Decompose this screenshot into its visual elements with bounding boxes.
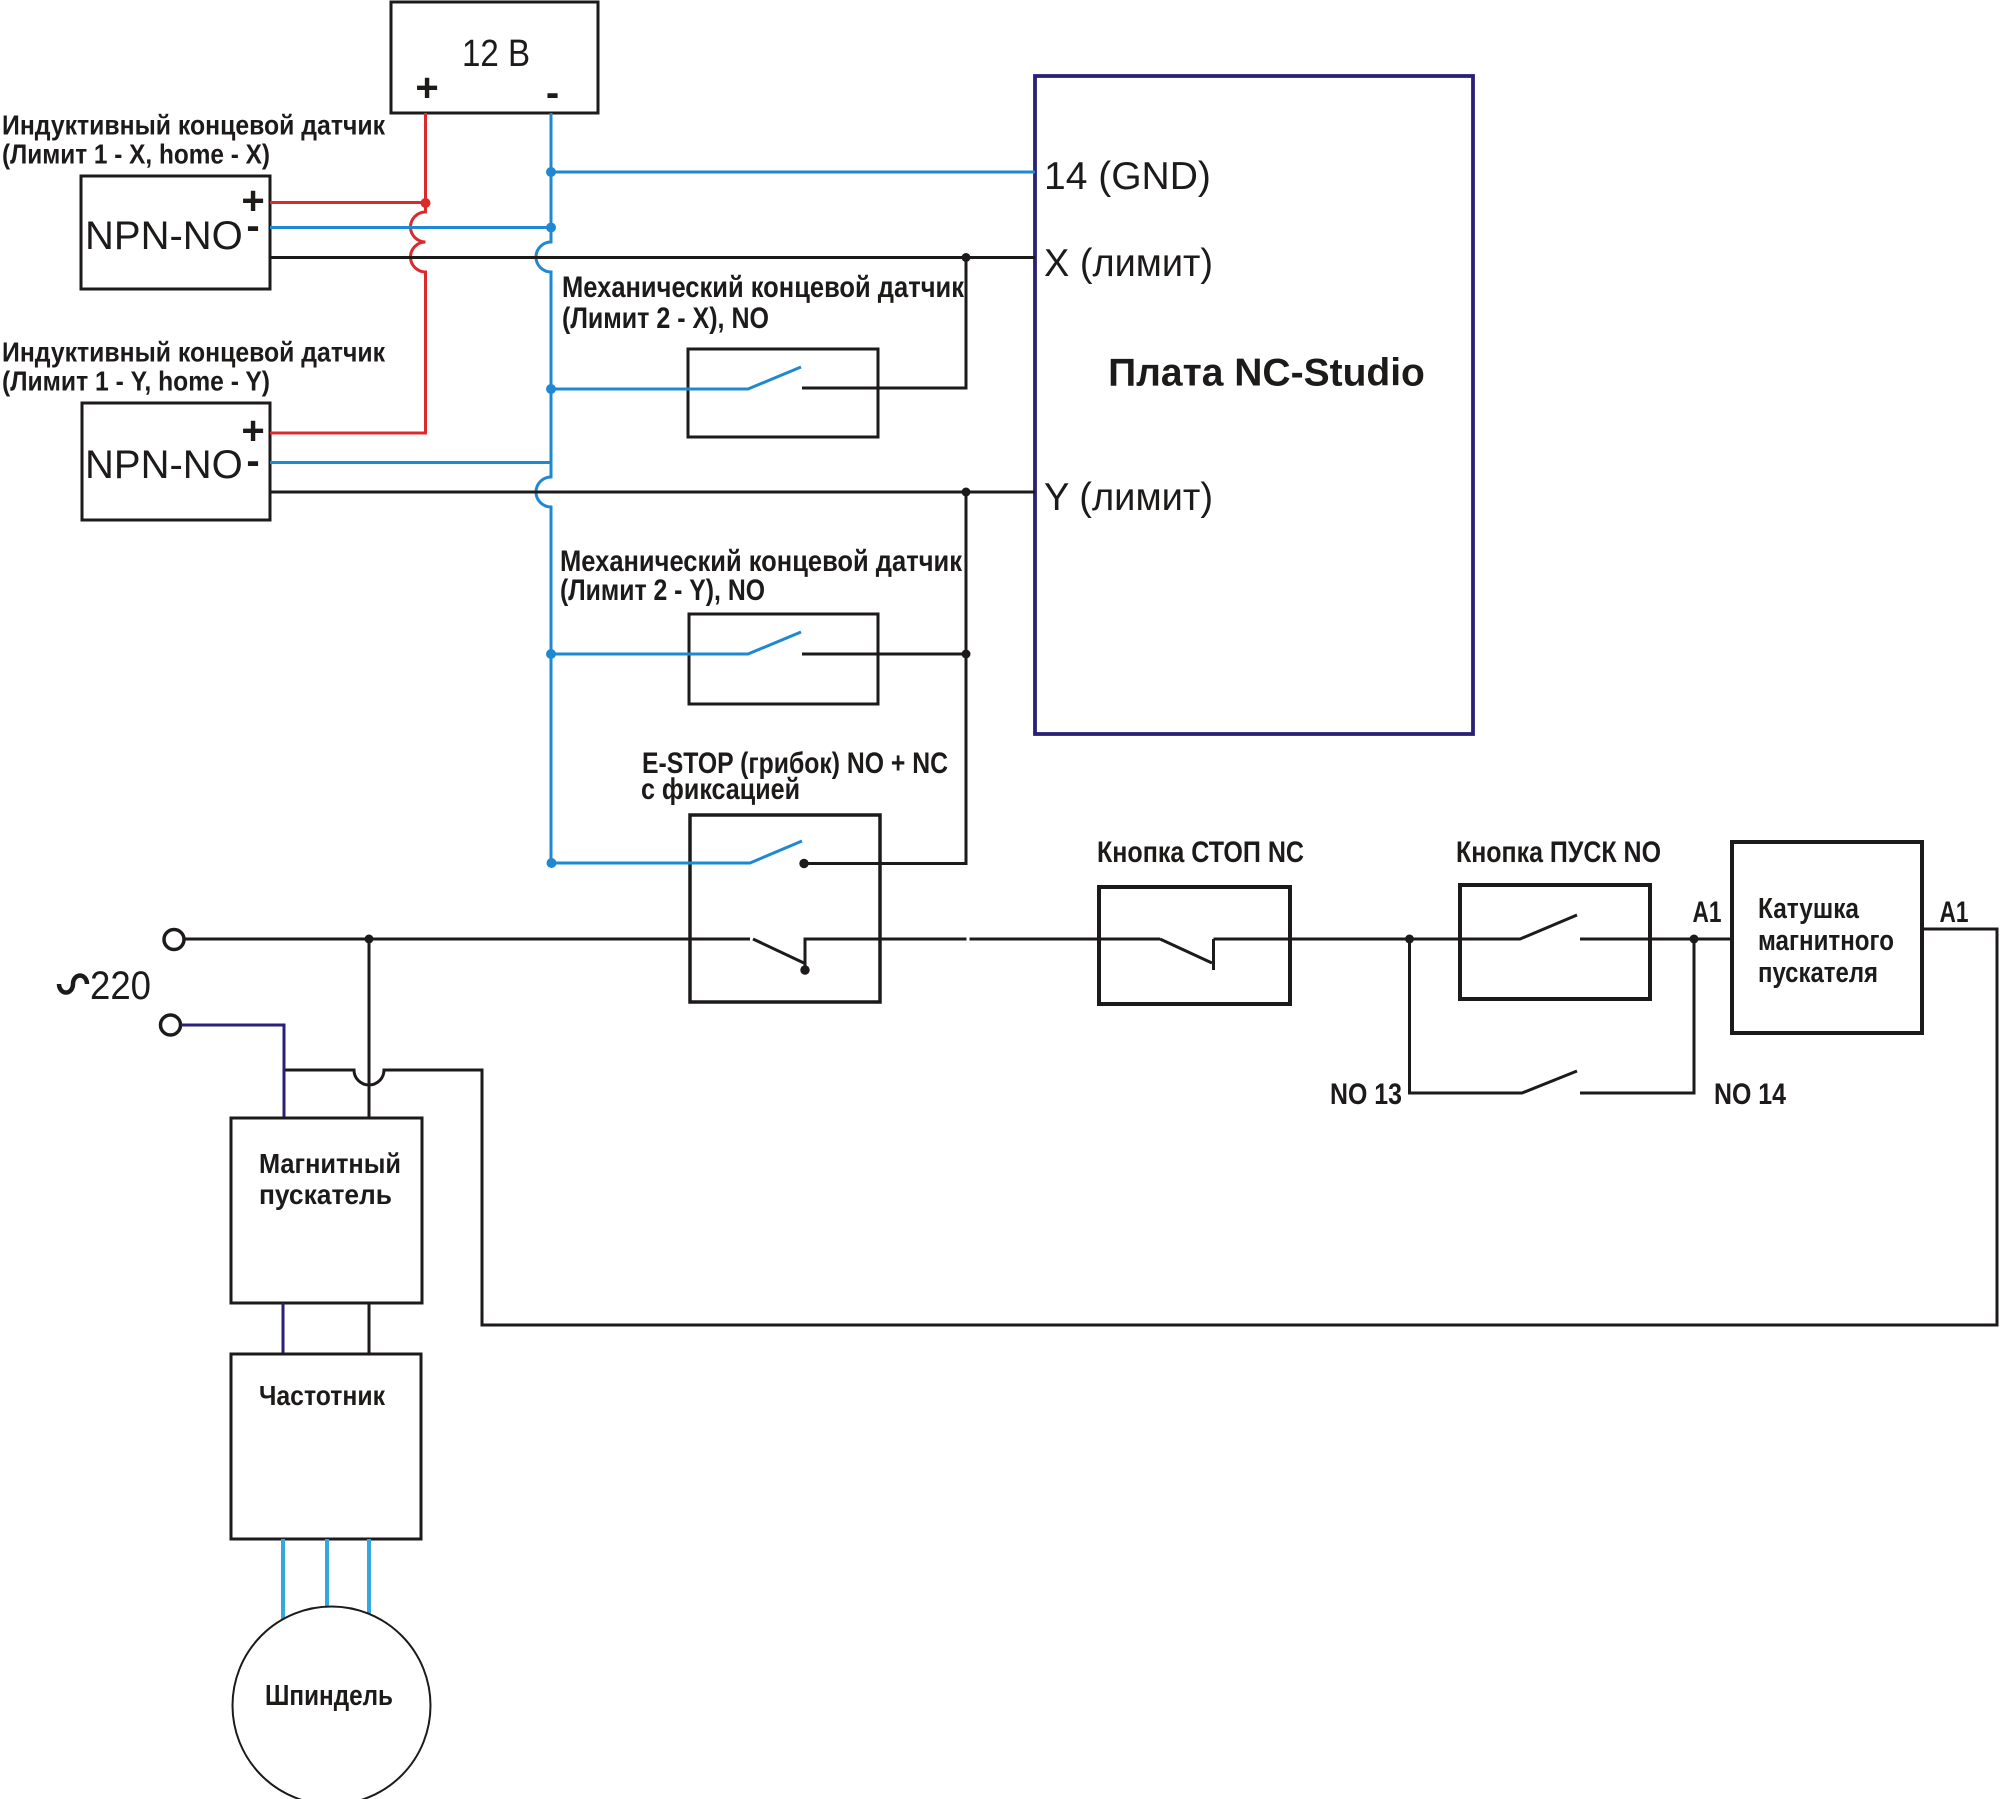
wire red bus from 12V plus with hops bbox=[270, 113, 426, 433]
terminal circle AC line bbox=[164, 930, 184, 950]
wire blue sensor Y minus bbox=[270, 461, 551, 464]
spindle circle bbox=[233, 1607, 431, 1799]
wire blue sensor X minus bbox=[270, 226, 551, 229]
svg-text:X (лимит): X (лимит) bbox=[1044, 242, 1213, 285]
wire black Y limit line bbox=[270, 491, 1035, 494]
wire black coil return loop with hop bbox=[284, 929, 1997, 1325]
switch button STOP box bbox=[1099, 887, 1290, 1004]
node black junction AC to contactor bbox=[365, 935, 374, 944]
wire black AC main line to E-STOP NC pivot bbox=[185, 938, 750, 941]
svg-text:Катушка: Катушка bbox=[1758, 893, 1860, 925]
wire black STOP NC contact bbox=[1160, 939, 1410, 970]
wire blue GND to NC-Studio bbox=[551, 171, 1035, 174]
svg-text:Магнитный: Магнитный bbox=[259, 1148, 401, 1179]
svg-text:-: - bbox=[546, 71, 559, 115]
svg-text:-: - bbox=[246, 204, 259, 248]
node black junction NO13 bbox=[1405, 935, 1414, 944]
switch mechanical Y box bbox=[689, 614, 878, 704]
svg-text:Шпиндель: Шпиндель bbox=[265, 1680, 393, 1712]
label inductive sensor X bbox=[2, 110, 386, 170]
node blue end E-STOP bbox=[547, 858, 557, 868]
label inductive sensor Y bbox=[2, 337, 386, 397]
board NC-Studio box bbox=[1035, 76, 1473, 734]
svg-text:(Лимит 1 - Y, home - Y): (Лимит 1 - Y, home - Y) bbox=[2, 366, 270, 397]
svg-text:-: - bbox=[246, 439, 259, 483]
wire black vertical to contactor bbox=[368, 939, 371, 1118]
svg-text:NPN-NO: NPN-NO bbox=[85, 214, 243, 258]
svg-text:12 В: 12 В bbox=[462, 33, 530, 75]
wire black mech X contact bbox=[802, 258, 966, 389]
switch E-STOP box bbox=[690, 815, 880, 1002]
svg-text:NO 14: NO 14 bbox=[1714, 1078, 1786, 1111]
label mechanical switch Y bbox=[560, 545, 963, 607]
node red junction bbox=[421, 198, 431, 208]
wire blue branch to mech X bbox=[551, 367, 801, 389]
node blue junction X minus bbox=[546, 223, 556, 233]
node black junction Y limit bbox=[962, 488, 971, 497]
node black E-STOP NC contact bbox=[800, 965, 809, 974]
wire red sensor X plus bbox=[270, 201, 426, 204]
svg-text:Частотник: Частотник bbox=[259, 1380, 386, 1411]
contactor box bbox=[231, 1118, 422, 1303]
inverter box bbox=[231, 1354, 421, 1539]
wire black NO13 NO14 latch branch bbox=[1410, 939, 1695, 1093]
terminal circle AC neutral bbox=[161, 1015, 181, 1035]
svg-text:пускатель: пускатель bbox=[259, 1179, 392, 1210]
svg-text:Индуктивный концевой датчик: Индуктивный концевой датчик bbox=[2, 337, 386, 368]
svg-text:NO 13: NO 13 bbox=[1330, 1078, 1402, 1111]
svg-text:А1: А1 bbox=[1940, 896, 1969, 929]
svg-text:Плата NC-Studio: Плата NC-Studio bbox=[1108, 352, 1425, 395]
node black junction NO14 bbox=[1690, 935, 1699, 944]
wire blue branch to mech Y bbox=[551, 632, 801, 654]
wire black mech Y contact and riser to E-STOP bbox=[802, 492, 966, 864]
label mechanical switch X bbox=[562, 271, 965, 335]
label E-STOP bbox=[641, 747, 948, 806]
wire black contactor to inverter bbox=[368, 1303, 371, 1354]
coil contactor box bbox=[1732, 842, 1922, 1033]
svg-text:магнитного: магнитного bbox=[1758, 925, 1894, 957]
wire navy contactor to inverter bbox=[282, 1303, 285, 1354]
wire cyan inverter to spindle 2 bbox=[325, 1539, 329, 1606]
power supply 12V box bbox=[391, 2, 598, 115]
switch button START box bbox=[1460, 885, 1650, 999]
wire blue E-STOP arm bbox=[551, 841, 802, 863]
node blue junction mech Y bbox=[546, 649, 556, 659]
sensor NPN-NO Y box bbox=[82, 403, 270, 520]
svg-text:(Лимит 2 - X), NO: (Лимит 2 - X), NO bbox=[562, 302, 769, 335]
svg-text:пускателя: пускателя bbox=[1758, 957, 1878, 989]
wire cyan inverter to spindle 1 bbox=[281, 1539, 285, 1619]
svg-text:Кнопка СТОП NC: Кнопка СТОП NC bbox=[1097, 836, 1304, 869]
svg-text:NPN-NO: NPN-NO bbox=[85, 443, 243, 487]
node black junction X limit bbox=[962, 253, 971, 262]
node black E-STOP NO contact bbox=[799, 859, 808, 868]
sensor NPN-NO X box bbox=[81, 176, 270, 289]
svg-text:(Лимит 2 - Y), NO: (Лимит 2 - Y), NO bbox=[560, 574, 765, 607]
svg-text:с фиксацией: с фиксацией bbox=[641, 773, 800, 806]
svg-text:А1: А1 bbox=[1693, 896, 1722, 929]
wire black E-STOP NC arm bbox=[753, 939, 1160, 970]
node black junction mech Y contact bbox=[962, 650, 971, 659]
svg-text:14 (GND): 14 (GND) bbox=[1044, 155, 1211, 198]
node blue junction GND bbox=[546, 167, 556, 177]
wire navy AC neutral bbox=[181, 1025, 284, 1117]
wire black START NO arm bbox=[1410, 915, 1733, 939]
svg-text:Индуктивный концевой датчик: Индуктивный концевой датчик bbox=[2, 110, 386, 141]
label 220 bbox=[59, 964, 151, 1008]
svg-text:Y (лимит): Y (лимит) bbox=[1044, 476, 1213, 519]
svg-text:Кнопка ПУСК NO: Кнопка ПУСК NO bbox=[1456, 836, 1661, 869]
wire cyan inverter to spindle 3 bbox=[367, 1539, 371, 1614]
svg-text:(Лимит 1 - X, home - X): (Лимит 1 - X, home - X) bbox=[2, 139, 270, 170]
svg-text:220: 220 bbox=[90, 964, 151, 1008]
switch mechanical X box bbox=[688, 349, 878, 437]
wire black X limit line bbox=[270, 256, 1035, 259]
svg-text:+: + bbox=[415, 66, 438, 110]
wire blue bus from 12V minus with hops bbox=[536, 113, 551, 863]
node blue junction mech X bbox=[546, 384, 556, 394]
svg-text:Механический концевой датчик: Механический концевой датчик bbox=[562, 271, 965, 304]
